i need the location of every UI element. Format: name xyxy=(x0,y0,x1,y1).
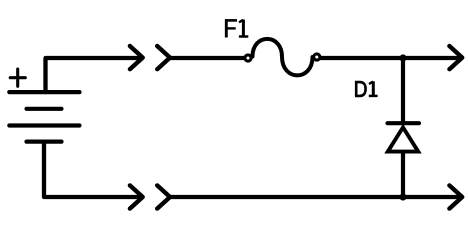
battery polarity label + xyxy=(10,69,25,86)
wire diode anode to node B xyxy=(401,153,405,197)
wire battery positive to top rail xyxy=(46,58,141,92)
wire node B to bottom output arrow xyxy=(403,195,460,199)
fuse F1 element (wave) xyxy=(253,39,313,75)
wire node A to top output arrow xyxy=(403,56,460,60)
diode D1 anode triangle xyxy=(388,127,418,151)
output arrow top xyxy=(449,46,462,69)
diode D1 cathode bar xyxy=(388,121,420,125)
wire node A to diode cathode xyxy=(401,58,405,123)
fuse F1 right terminal xyxy=(314,54,320,60)
wire chevron to node B xyxy=(170,195,403,199)
label F1 xyxy=(225,19,248,37)
connector male bottom (arrow) xyxy=(130,185,143,208)
output arrow bottom xyxy=(449,185,462,208)
connector male top (arrow) xyxy=(130,46,143,69)
battery xyxy=(9,92,79,142)
node A junction dot (top) xyxy=(399,54,406,61)
wire fuse to node A xyxy=(321,56,403,60)
connector female top (chevron) xyxy=(157,46,170,69)
wire chevron to fuse xyxy=(170,56,244,60)
wire battery negative to bottom rail xyxy=(44,142,140,197)
node B junction dot (bottom) xyxy=(399,193,406,200)
fuse F1 left terminal xyxy=(245,55,251,61)
connector female bottom (chevron) xyxy=(157,185,170,208)
label D1 xyxy=(355,81,378,96)
